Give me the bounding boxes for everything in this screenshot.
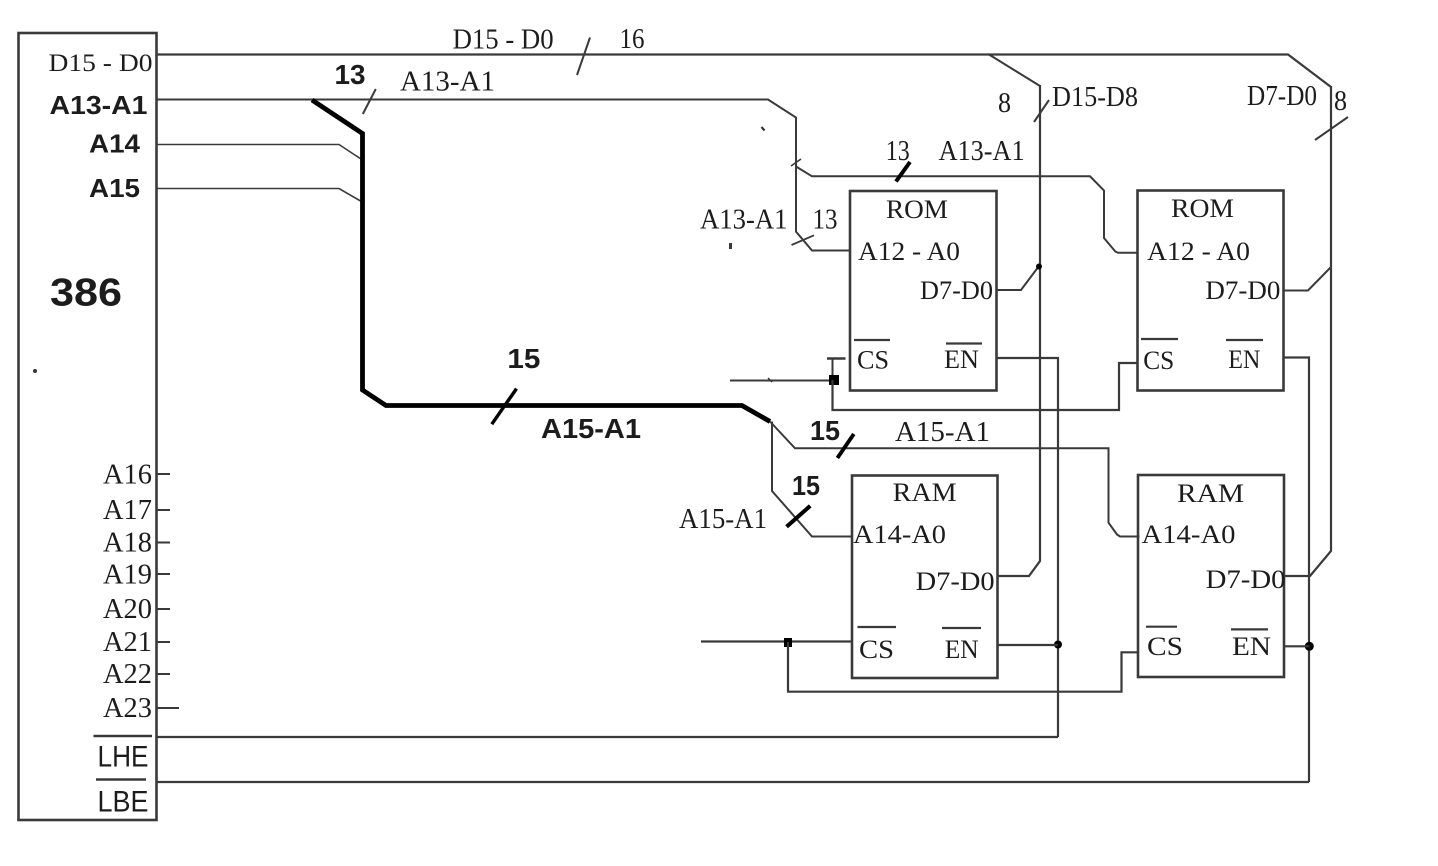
pin label CS with overline (ROM2)	[1141, 339, 1178, 375]
svg-text:A15-A1: A15-A1	[679, 504, 767, 535]
stub wire A20	[157, 608, 171, 610]
junction dot ROM1 D7-D0 on bus	[1036, 264, 1042, 270]
stray tick top middle	[762, 127, 765, 131]
stub wire A22	[157, 673, 171, 675]
svg-text:CS: CS	[857, 346, 889, 375]
junction dot ROM CS	[829, 375, 839, 385]
svg-text:A13-A1: A13-A1	[939, 136, 1025, 167]
stray dot left	[33, 369, 37, 373]
wire D15-D8 vertical bus into RAM1 D7-D0	[998, 85, 1041, 576]
pin label EN with overline (ROM1)	[944, 344, 982, 375]
bus slash 15 on thick A15-A1 bus	[492, 389, 517, 425]
stub wire A16	[157, 473, 171, 475]
svg-text:D7-D0: D7-D0	[1206, 565, 1286, 594]
bus slash 13 on ROM2 branch (thick)	[896, 162, 910, 182]
svg-text:A22: A22	[103, 659, 152, 690]
svg-text:A20: A20	[103, 594, 152, 625]
bus slash 16 on D15-D0	[577, 38, 590, 76]
pin label CS with overline (ROM1)	[854, 340, 890, 375]
svg-text:D15 - D0: D15 - D0	[49, 50, 153, 77]
stub wire A21	[157, 641, 171, 643]
wire A15	[157, 189, 364, 204]
RAM2 chip box	[1138, 475, 1284, 677]
wire RAM CS to RAM2	[788, 642, 1139, 692]
svg-text:D7-D0: D7-D0	[920, 276, 993, 305]
wire A13-A1 branch to ROM2	[796, 167, 1138, 253]
ROM1 CS stub vertical to junction	[832, 359, 834, 380]
svg-text:A18: A18	[103, 528, 152, 559]
junction dot EN/LHE	[1054, 641, 1062, 649]
svg-text:15: 15	[507, 343, 540, 374]
svg-text:A14-A0: A14-A0	[1142, 520, 1236, 549]
wire RAM1 EN to junction	[998, 644, 1059, 646]
svg-text:15: 15	[810, 415, 840, 446]
svg-text:CS: CS	[1147, 632, 1183, 661]
svg-text:A13-A1: A13-A1	[400, 67, 495, 98]
ROM2 chip box	[1138, 191, 1284, 391]
svg-text:A19: A19	[103, 560, 152, 591]
wire branch D15-D8 diagonal	[989, 55, 1040, 87]
pin label LHE with overline	[94, 736, 153, 774]
wire ROM1 EN down to LHE	[997, 358, 1059, 737]
svg-text:A13-A1: A13-A1	[50, 90, 148, 120]
svg-text:15: 15	[792, 470, 820, 501]
svg-text:8: 8	[998, 88, 1011, 119]
pin label CS with overline (RAM2)	[1146, 627, 1183, 661]
svg-text:A12 - A0: A12 - A0	[1147, 237, 1250, 266]
wire ROM CS to ROM2	[833, 363, 1138, 410]
svg-text:D7-D0: D7-D0	[1247, 81, 1317, 112]
wire D15-D0 data bus top	[157, 55, 1331, 88]
wire LHE	[157, 736, 1059, 738]
svg-text:EN: EN	[1232, 632, 1271, 661]
svg-text:LHE: LHE	[98, 741, 149, 774]
svg-text:D7-D0: D7-D0	[1205, 276, 1280, 305]
svg-text:CS: CS	[859, 635, 894, 664]
svg-text:ROM: ROM	[1171, 194, 1234, 223]
CPU 386 box	[19, 33, 157, 820]
svg-text:8: 8	[1334, 86, 1347, 117]
bus slash 8 on D15-D8	[1034, 100, 1049, 122]
svg-text:LBE: LBE	[98, 786, 149, 819]
bus slash 8 on D7-D0	[1315, 117, 1348, 140]
svg-text:RAM: RAM	[1177, 479, 1244, 508]
svg-text:A17: A17	[103, 495, 152, 526]
svg-text:A14: A14	[89, 129, 141, 159]
wire ROM2 EN down to LBE	[1284, 358, 1310, 783]
svg-text:EN: EN	[945, 635, 979, 664]
svg-text:13: 13	[886, 136, 910, 167]
thick A15-A1 bus	[312, 100, 770, 422]
svg-text:D15-D8: D15-D8	[1052, 82, 1138, 113]
ROM1 chip box	[850, 191, 997, 391]
svg-text:A14-A0: A14-A0	[853, 520, 946, 549]
svg-text:A15: A15	[89, 173, 140, 203]
svg-text:A15-A1: A15-A1	[541, 413, 641, 444]
stub wire A18	[157, 542, 171, 544]
svg-text:A13-A1: A13-A1	[700, 205, 788, 236]
pin label EN with overline (RAM1)	[942, 628, 981, 664]
wire A14	[157, 145, 364, 162]
bus slash 13 near 386	[363, 89, 376, 114]
stub wire A17	[157, 509, 171, 511]
wire ROM1 D7-D0 to D15-D8 bus	[997, 266, 1040, 290]
junction dot ROM2/RAM2 EN	[1305, 642, 1314, 651]
pin label EN with overline (ROM2)	[1226, 340, 1263, 374]
svg-text:EN: EN	[944, 345, 979, 374]
wire A15-A1 to RAM1	[772, 422, 852, 537]
svg-text:CS: CS	[1143, 346, 1174, 375]
svg-text:A12 - A0: A12 - A0	[858, 237, 960, 266]
stub wire A23	[157, 707, 180, 709]
svg-text:A16: A16	[103, 460, 152, 491]
pin label LBE with overline	[96, 780, 149, 819]
svg-text:16: 16	[620, 24, 645, 55]
RAM1 chip box	[852, 476, 998, 679]
svg-text:ROM: ROM	[886, 195, 948, 224]
svg-text:RAM: RAM	[893, 478, 957, 507]
svg-text:A15-A1: A15-A1	[895, 417, 990, 448]
svg-text:EN: EN	[1228, 345, 1260, 374]
svg-text:13: 13	[335, 59, 366, 90]
svg-text:D15 - D0: D15 - D0	[453, 25, 554, 56]
stray tick on ROM CS wire	[768, 378, 772, 382]
wire ROM2 D7-D0 to D7-D0 bus	[1284, 267, 1332, 291]
bus slash 15 on RAM2 branch (thick)	[837, 434, 853, 458]
svg-text:D7-D0: D7-D0	[916, 567, 995, 596]
wire LBE	[157, 781, 1310, 783]
small tick on A13-A1 vertical	[791, 159, 801, 166]
wire A15-A1 to RAM2	[770, 422, 1140, 537]
junction dot RAM CS	[784, 638, 792, 647]
stray mark small	[729, 243, 732, 249]
stub wire A19	[157, 573, 171, 575]
wire A13-A1 from 386	[157, 100, 850, 251]
bus slash on ROM1 A13-A1 diagonal	[792, 235, 815, 245]
bus slash 15 on RAM1 branch (thick)	[787, 506, 811, 527]
wire RAM2 EN stub	[1285, 645, 1310, 647]
wire RAM chip-select from decoder	[701, 640, 852, 642]
wire D7-D0 vertical bus into RAM2 D7-D0	[1284, 86, 1331, 576]
svg-text:386: 386	[50, 272, 122, 315]
ROM1 CS pin stub dash	[827, 357, 846, 359]
svg-text:A23: A23	[103, 693, 152, 724]
pin label CS with overline (RAM1)	[858, 627, 897, 664]
svg-text:A21: A21	[103, 627, 152, 658]
svg-text:13: 13	[813, 205, 838, 236]
wire ROM chip-select from decoder	[730, 380, 833, 382]
pin label EN with overline (RAM2)	[1231, 629, 1271, 661]
